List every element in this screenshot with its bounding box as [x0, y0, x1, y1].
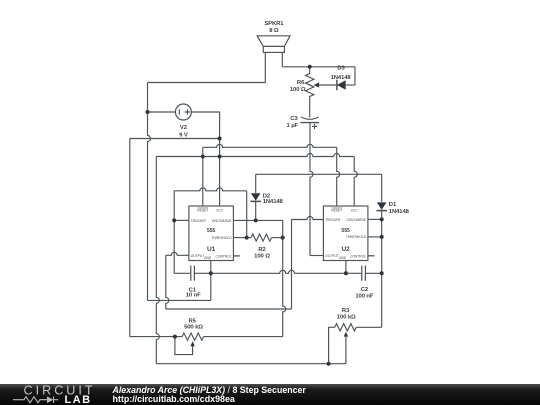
svg-text:R5: R5 [189, 318, 197, 324]
svg-text:R3: R3 [342, 308, 350, 314]
svg-text:R2: R2 [258, 247, 266, 253]
svg-text:TRIGGER: TRIGGER [325, 218, 341, 222]
svg-text:555: 555 [341, 228, 350, 234]
svg-text:GND: GND [339, 256, 347, 260]
svg-text:DISCHARGE: DISCHARGE [212, 219, 232, 223]
svg-text:THRESHOLD: THRESHOLD [211, 236, 232, 240]
svg-text:SPKR1: SPKR1 [264, 21, 284, 27]
svg-text:8 Ω: 8 Ω [269, 28, 279, 34]
svg-text:1N4148: 1N4148 [263, 199, 284, 205]
svg-text:C2: C2 [361, 287, 369, 293]
svg-text:10 nF: 10 nF [186, 293, 201, 299]
svg-text:CONTROL: CONTROL [350, 254, 366, 258]
svg-text:V2: V2 [180, 125, 188, 131]
svg-text:1N4148: 1N4148 [331, 75, 352, 81]
svg-text:GND: GND [204, 256, 212, 260]
svg-text:9 V: 9 V [179, 133, 188, 139]
svg-text:D1: D1 [389, 202, 397, 208]
svg-text:LAB: LAB [65, 394, 92, 405]
svg-text:OUTPUT: OUTPUT [325, 254, 340, 258]
svg-text:U1: U1 [207, 246, 216, 253]
svg-text:100 nF: 100 nF [355, 294, 374, 300]
svg-text:DISCHARGE: DISCHARGE [346, 218, 366, 222]
svg-text:U2: U2 [342, 246, 351, 253]
svg-text:CONTROL: CONTROL [215, 254, 231, 258]
svg-text:1N4148: 1N4148 [389, 209, 410, 215]
svg-text:TRIGGER: TRIGGER [191, 219, 207, 223]
svg-text:RESET: RESET [197, 208, 209, 212]
svg-text:555: 555 [207, 228, 216, 234]
svg-text:VCC: VCC [351, 208, 359, 212]
svg-text:VCC: VCC [216, 208, 224, 212]
svg-text:http://circuitlab.com/cdx98ea: http://circuitlab.com/cdx98ea [113, 394, 235, 404]
svg-text:THRESHOLD: THRESHOLD [346, 235, 367, 239]
svg-text:100 Ω: 100 Ω [290, 87, 306, 93]
svg-text:RESET: RESET [331, 208, 343, 212]
svg-text:1 µF: 1 µF [287, 123, 299, 129]
svg-text:500 kΩ: 500 kΩ [184, 325, 203, 331]
svg-text:100 Ω: 100 Ω [254, 254, 270, 260]
svg-text:C3: C3 [290, 116, 298, 122]
svg-text:R6: R6 [297, 80, 305, 86]
svg-text:100 kΩ: 100 kΩ [337, 314, 356, 320]
svg-text:D3: D3 [337, 66, 345, 72]
svg-text:OUTPUT: OUTPUT [191, 254, 206, 258]
